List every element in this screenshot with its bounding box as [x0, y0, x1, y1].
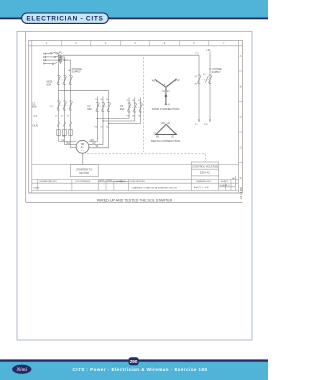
svg-text:1: 1 — [46, 41, 48, 45]
main switch linkage dashed — [60, 79, 72, 81]
bridge wire 2 — [103, 120, 135, 122]
control OLR contact — [198, 75, 202, 84]
supply line L2 row — [44, 55, 65, 57]
wire motor U2 — [89, 144, 103, 146]
supply line N row — [44, 62, 58, 64]
footer navy rule — [0, 359, 268, 362]
svg-text:W2: W2 — [152, 81, 156, 83]
control circuit down arrow right — [209, 120, 211, 123]
frame bottom inner line — [29, 192, 243, 194]
dashed earth drop — [205, 154, 207, 162]
contactor C2 line 3 — [108, 96, 110, 148]
svg-text:ELECTRICIAN - CITS: ELECTRICIAN - CITS — [26, 15, 103, 22]
bus Y vertical — [64, 57, 66, 145]
svg-text:SUPPLY: SUPPLY — [212, 71, 222, 74]
contactor C2 line 1 — [96, 97, 98, 142]
svg-text:7W: 7W — [126, 116, 130, 118]
control switch linkage dashed — [202, 78, 209, 80]
svg-text:C: C — [240, 115, 242, 119]
svg-text:DELTA CONNECTION: DELTA CONNECTION — [151, 139, 180, 143]
contactor C2 contacts — [96, 103, 111, 112]
contactor C3 line 2 — [134, 98, 136, 122]
svg-text:8U: 8U — [132, 116, 135, 118]
svg-text:9V: 9V — [138, 116, 141, 118]
svg-text:V1: V1 — [167, 91, 171, 93]
drawing frame inner band lines — [31, 41, 33, 194]
labels C3 bottom terminals — [126, 116, 141, 118]
svg-text:HIGH METERS: HIGH METERS — [130, 181, 146, 183]
svg-text:S1: S1 — [203, 74, 206, 76]
wire bus to motor U1 — [59, 140, 77, 142]
svg-text:290: 290 — [130, 359, 138, 364]
svg-text:E: E — [240, 176, 242, 180]
contactor C1 main contacts — [57, 101, 73, 110]
wire motor W2 — [89, 140, 98, 142]
svg-text:FU: FU — [59, 51, 63, 55]
svg-text:EX 1.9.083: EX 1.9.083 — [240, 187, 243, 199]
svg-text:WGT: WGT — [99, 180, 105, 182]
figure bottom line — [26, 201, 243, 203]
svg-text:D: D — [240, 146, 242, 150]
feed wire to contactors — [59, 91, 109, 96]
table texts — [34, 177, 236, 190]
motor label box — [70, 165, 98, 177]
svg-text:63A: 63A — [47, 83, 52, 87]
supply line L1 row — [44, 52, 59, 54]
wire bus to motor W1 — [71, 147, 78, 149]
contactor C2 linkage dashed — [98, 106, 109, 108]
label 3 phase supply — [72, 68, 83, 74]
control circuit wire left — [198, 55, 200, 122]
motor M 3ph — [76, 140, 89, 153]
svg-text:STAR CONNECTION: STAR CONNECTION — [152, 107, 180, 111]
svg-text:U2: U2 — [177, 80, 181, 82]
svg-text:K1: K1 — [195, 124, 198, 126]
svg-text:6T: 6T — [67, 116, 70, 118]
wire motor V2 — [88, 147, 108, 149]
svg-text:U1: U1 — [162, 91, 166, 93]
wire control feed — [59, 54, 200, 56]
node 1ph supply — [209, 68, 210, 69]
star connection diagram — [155, 79, 176, 105]
svg-text:5: 5 — [164, 41, 166, 45]
arrow to bus — [69, 70, 71, 71]
supply line L3 row — [44, 59, 71, 61]
svg-text:A: A — [240, 54, 242, 58]
contactor C3 line 3 — [140, 98, 142, 124]
svg-text:NUMBER: NUMBER — [116, 181, 126, 183]
svg-text:W1: W1 — [156, 137, 160, 139]
bridge wire 1 — [97, 118, 129, 120]
svg-text:OLR: OLR — [33, 124, 38, 128]
svg-text:4: 4 — [164, 85, 166, 87]
OLR hook contacts — [58, 122, 72, 128]
svg-text:4T: 4T — [61, 116, 64, 118]
header sky blue block — [0, 0, 268, 18]
svg-text:CUSTOMER(S): CUSTOMER(S) — [75, 181, 91, 183]
contactor C3 pin labels top — [126, 100, 141, 102]
svg-text:1W: 1W — [94, 127, 98, 129]
contactor C3 contacts — [128, 103, 143, 112]
zone letters right — [240, 54, 242, 180]
contactor C2 pin labels top — [95, 99, 110, 101]
svg-text:3: 3 — [105, 41, 107, 45]
header pill ELECTRICIAN - CITS — [22, 13, 109, 23]
svg-text:220: 220 — [204, 124, 208, 126]
delta terminal labels — [153, 123, 178, 138]
labels U1 V1 W1 — [62, 136, 71, 145]
control circuit down arrow left — [198, 120, 200, 123]
svg-text:V1: V1 — [174, 133, 178, 135]
junction dots — [97, 118, 110, 124]
svg-text:CONTROL VOLTAGE: CONTROL VOLTAGE — [192, 165, 218, 169]
figure left margin line — [25, 32, 27, 203]
fuse FU — [59, 55, 62, 64]
contactor C2 line 2 — [102, 97, 104, 145]
svg-text:U2: U2 — [167, 123, 171, 125]
svg-text:WIRED-UP AND TESTED THE DOL ST: WIRED-UP AND TESTED THE DOL STARTER — [97, 198, 173, 202]
svg-text:DRAWING NO.: DRAWING NO. — [196, 180, 211, 183]
svg-text:C1: C1 — [34, 114, 38, 118]
title table — [32, 176, 239, 191]
delta connection diagram — [156, 124, 176, 134]
svg-text:6: 6 — [193, 41, 195, 45]
bus B vertical — [70, 60, 72, 148]
svg-text:U1: U1 — [62, 136, 66, 138]
control voltage box — [191, 162, 218, 176]
svg-text:1L1: 1L1 — [50, 106, 54, 108]
svg-text:N: N — [168, 104, 170, 106]
contactor C1 linkage dashed — [60, 105, 72, 107]
svg-text:95: 95 — [195, 76, 198, 78]
OLR F1 heaters — [57, 130, 72, 136]
svg-text:—: — — [81, 148, 84, 152]
bus wire tags — [55, 116, 70, 118]
svg-text:2T: 2T — [55, 116, 58, 118]
wire bus to motor V1 — [65, 144, 77, 146]
bus R vertical — [58, 53, 60, 141]
svg-text:Nimi: Nimi — [16, 367, 28, 373]
NIMI logo — [12, 365, 31, 374]
svg-text:SIGNATURE (BY): SIGNATURE (BY) — [39, 180, 57, 183]
svg-text:W1: W1 — [67, 143, 71, 145]
svg-text:N: N — [43, 62, 45, 66]
svg-text:MOTOR: MOTOR — [79, 171, 89, 175]
svg-text:2: 2 — [75, 41, 77, 45]
svg-text:220V AC: 220V AC — [200, 171, 211, 175]
svg-text:65A: 65A — [120, 107, 125, 111]
svg-text:DGN: DGN — [107, 180, 112, 182]
svg-text:L/N: L/N — [207, 49, 211, 52]
svg-text:65A: 65A — [87, 107, 92, 111]
header navy rule — [0, 18, 268, 20]
svg-text:V2: V2 — [171, 137, 175, 139]
svg-text:DATE: DATE — [34, 187, 40, 190]
contactor C3 line 1 — [128, 98, 130, 119]
labels C2 bottom terminals — [94, 127, 109, 129]
svg-text:7: 7 — [223, 41, 225, 45]
zone numbers top — [46, 41, 225, 45]
svg-text:FU: FU — [196, 53, 199, 55]
drawing frame outer — [29, 41, 243, 194]
svg-text:B: B — [240, 85, 242, 89]
motor earth stub — [82, 153, 84, 164]
footer page badge 290 — [129, 357, 139, 365]
content area box — [17, 31, 252, 340]
title block top line — [32, 164, 239, 166]
svg-text:SHEET: SHEET — [221, 181, 229, 183]
svg-text:96: 96 — [195, 84, 198, 86]
bridge wire 3 — [109, 123, 141, 125]
svg-text:SUPPLY: SUPPLY — [72, 71, 82, 74]
svg-text:4: 4 — [134, 41, 136, 45]
zone ticks right — [239, 71, 243, 163]
zone ticks top — [61, 41, 209, 46]
dashed earth wire — [87, 153, 206, 155]
labels W2 U2 V2 — [90, 140, 99, 148]
dashed separator line — [143, 57, 145, 152]
svg-text:2U: 2U — [100, 127, 103, 129]
star terminal labels — [152, 80, 180, 106]
main switch Q1 contacts — [57, 76, 73, 85]
svg-text:CHANGED / STAR DELTA STARTER C: CHANGED / STAR DELTA STARTER CIRCUIT — [132, 187, 178, 190]
svg-text:65A: 65A — [32, 105, 37, 109]
control circuit wire right — [209, 52, 211, 123]
control switch contacts — [205, 75, 212, 84]
footer sky blue band — [0, 362, 268, 380]
contactor C3 linkage dashed — [130, 106, 142, 108]
svg-text:A-B (?) 1 - V06: A-B (?) 1 - V06 — [194, 186, 209, 189]
svg-text:CITS : Power - Electrician & W: CITS : Power - Electrician & Wireman - E… — [73, 367, 208, 372]
